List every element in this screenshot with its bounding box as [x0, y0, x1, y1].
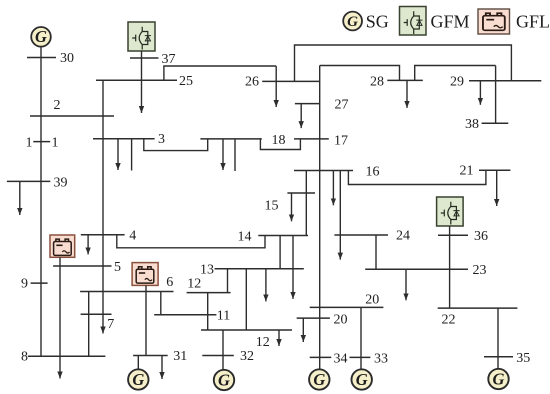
load arrow bus 15 [291, 193, 293, 221]
bus 4 [81, 234, 125, 236]
bus 33 [350, 356, 371, 358]
legend SG symbol [343, 12, 362, 31]
wire GFL-5-8 with load arrow [59, 257, 61, 378]
svg-text:14: 14 [238, 230, 252, 245]
svg-text:13: 13 [200, 263, 214, 278]
svg-text:GFL: GFL [516, 12, 550, 32]
svg-text:21: 21 [460, 163, 474, 178]
svg-text:20: 20 [334, 313, 348, 328]
svg-text:28: 28 [370, 75, 384, 90]
bus 12 lower [201, 329, 292, 331]
legend GFL symbol [478, 9, 510, 34]
load arrow bus 20 [302, 318, 304, 342]
load arrow bus 13 [265, 269, 267, 302]
wire 31-G [137, 356, 139, 370]
bus 36 [438, 234, 468, 236]
bus 17 [294, 138, 329, 140]
converter GFL U1 [50, 235, 75, 257]
svg-text:18: 18 [272, 133, 286, 148]
wire 29-38 [495, 66, 497, 124]
load arrow bus 16 [332, 171, 334, 206]
svg-text:G: G [493, 370, 505, 389]
wire 13-12 upper [227, 269, 229, 293]
generator SG G30 [31, 27, 51, 47]
wire 12-32 [222, 330, 224, 369]
bus 38 [482, 122, 509, 124]
svg-text:24: 24 [396, 229, 410, 244]
svg-text:8: 8 [21, 350, 28, 365]
svg-text:37: 37 [162, 52, 176, 67]
bus 16 [294, 170, 353, 172]
svg-text:2: 2 [54, 98, 61, 113]
bus 3 [93, 138, 155, 140]
legend GFM symbol [400, 7, 427, 36]
bus 7 [81, 313, 112, 315]
svg-text:G: G [347, 14, 358, 30]
svg-text:12: 12 [256, 335, 270, 350]
wire 16-15-14 [305, 171, 307, 236]
bus 15 [287, 192, 315, 194]
svg-text:38: 38 [465, 117, 479, 132]
wire 27-28 step [320, 66, 400, 81]
converter GFM U37 [128, 22, 155, 51]
svg-text:22: 22 [442, 313, 456, 328]
wire 24-23 [375, 235, 377, 269]
bus 23 [365, 268, 468, 270]
bus 24 [334, 234, 388, 236]
svg-text:11: 11 [217, 309, 230, 324]
bus 26 [262, 80, 320, 82]
wire 18-17 step [260, 139, 300, 150]
bus 6 [80, 291, 173, 293]
bus 29 [469, 80, 541, 82]
generator SG G35 [488, 369, 508, 389]
bus 34 [310, 356, 332, 358]
svg-text:23: 23 [473, 263, 487, 278]
svg-text:39: 39 [54, 176, 68, 191]
bus 8 [28, 355, 106, 357]
svg-text:GFM: GFM [431, 12, 470, 32]
bus 1 [33, 141, 50, 143]
load arrow bus 31 [161, 356, 163, 380]
wire 37-25 with load arrow [141, 51, 143, 113]
svg-text:34: 34 [334, 352, 348, 367]
bus 11 [154, 314, 216, 316]
wire central trunk 27-17-16-20-34 [319, 66, 321, 370]
svg-text:6: 6 [166, 275, 173, 290]
svg-text:30: 30 [60, 51, 74, 66]
bus 20 lower [297, 317, 330, 319]
svg-text:29: 29 [450, 75, 464, 90]
bus 37 [130, 57, 159, 59]
bus 35 [484, 356, 513, 358]
bus 32 [202, 355, 234, 357]
svg-text:26: 26 [245, 75, 259, 90]
svg-text:1: 1 [26, 136, 33, 151]
svg-text:31: 31 [173, 349, 187, 364]
wire 2-3-4-5-6-7 trunk with load arrow [102, 116, 104, 334]
bus 20 upper [310, 306, 384, 308]
svg-text:SG: SG [366, 12, 389, 32]
svg-text:35: 35 [516, 351, 530, 366]
bus 22 [438, 307, 518, 309]
wire 12-11-12 [207, 293, 209, 330]
svg-text:9: 9 [21, 277, 28, 292]
svg-text:G: G [356, 370, 368, 389]
wire 6-7-8 [88, 292, 90, 357]
wire 16-24 with load arrow [339, 171, 341, 260]
generator SG G32 [214, 370, 234, 390]
svg-text:G: G [35, 27, 47, 46]
bus 25 [96, 79, 177, 81]
svg-text:G: G [132, 370, 144, 389]
generator SG G31 [128, 369, 148, 389]
bus 21 [479, 169, 510, 171]
wire 14-13 load arrow [292, 236, 294, 299]
wire 3-18 step [144, 139, 208, 151]
wire 26 drop and load arrow [275, 66, 277, 107]
load arrow bus 18 [222, 139, 224, 170]
generator SG G33 [352, 369, 372, 389]
wire 6-11 [160, 292, 162, 315]
svg-text:17: 17 [334, 133, 348, 148]
bus 27 [295, 103, 320, 105]
svg-text:16: 16 [366, 164, 380, 179]
bus 9 [31, 282, 48, 284]
generator SG G34 [309, 369, 329, 389]
load arrow bus 27 [300, 104, 302, 129]
svg-text:4: 4 [129, 229, 136, 244]
wire 13-12 lower [245, 269, 247, 330]
bus 2 [30, 115, 114, 117]
load arrow bus 23 [405, 269, 407, 300]
bus 14 [258, 235, 308, 237]
svg-text:15: 15 [265, 198, 279, 213]
svg-text:36: 36 [474, 229, 488, 244]
svg-text:7: 7 [107, 317, 114, 332]
bus 28 [387, 79, 423, 81]
bus 31 [133, 355, 168, 357]
bus 5 [53, 265, 111, 267]
wire 28-29 step [415, 66, 496, 81]
load line bus 3 [131, 139, 133, 171]
wire 25-2 [102, 80, 104, 116]
bus 12 upper [187, 292, 231, 294]
wire 30-2-1-39-9-8 left trunk [40, 47, 42, 357]
converter GFL U2 [132, 263, 158, 286]
svg-text:1: 1 [52, 135, 59, 150]
load arrow bus 12 [278, 330, 280, 346]
load arrow bus 21 [496, 170, 498, 206]
bus 30 [27, 57, 56, 59]
svg-text:25: 25 [179, 74, 193, 89]
load arrow bus 39 [19, 181, 21, 215]
load line bus 18 [234, 139, 236, 171]
wire 14-13 [279, 236, 281, 269]
load arrow bus 29 [479, 81, 481, 105]
converter GFM U36 [437, 197, 464, 226]
svg-text:G: G [313, 370, 325, 389]
svg-text:3: 3 [158, 132, 165, 147]
load arrow bus 4 [87, 235, 89, 255]
svg-text:32: 32 [240, 349, 254, 364]
bus 39 [7, 180, 50, 182]
svg-text:27: 27 [335, 97, 349, 112]
wire 4-14 step [117, 235, 265, 248]
bus 13 [215, 268, 304, 270]
wire 26-29 top line [295, 45, 512, 81]
wire 20-33 [360, 307, 362, 369]
wire 22-35 [497, 308, 499, 369]
load arrow bus 28 [406, 80, 408, 108]
wire GFL2-6-31 [145, 285, 147, 355]
svg-text:5: 5 [114, 260, 121, 275]
svg-text:12: 12 [187, 277, 201, 292]
svg-text:33: 33 [374, 352, 388, 367]
svg-text:20: 20 [365, 293, 379, 308]
wire 25-26 step [164, 66, 276, 80]
bus 18 [200, 138, 261, 140]
svg-text:G: G [218, 371, 230, 390]
wire 16-21 step [348, 170, 486, 184]
wire 36-23-22 [449, 226, 451, 308]
load arrow bus 3 [117, 139, 119, 170]
